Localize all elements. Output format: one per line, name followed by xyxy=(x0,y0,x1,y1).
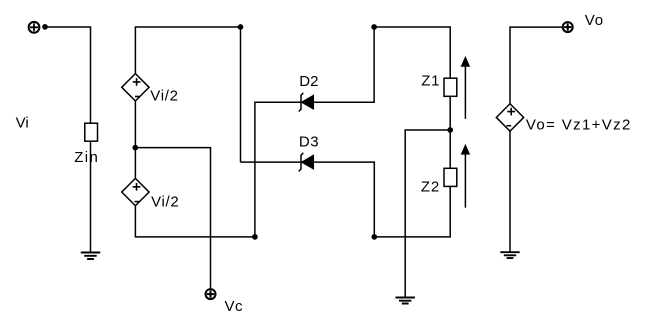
svg-text:Z2: Z2 xyxy=(421,178,440,195)
svg-text:Vi/2: Vi/2 xyxy=(151,194,179,211)
svg-text:Vi/2: Vi/2 xyxy=(150,88,178,105)
svg-text:Z1: Z1 xyxy=(421,73,440,90)
svg-text:Vo: Vo xyxy=(585,12,604,29)
svg-text:Zin: Zin xyxy=(74,149,99,166)
svg-text:Vc: Vc xyxy=(225,298,244,315)
svg-text:D3: D3 xyxy=(299,133,319,150)
svg-text:Vo= Vz1+Vz2: Vo= Vz1+Vz2 xyxy=(526,117,632,134)
svg-text:D2: D2 xyxy=(299,73,318,90)
svg-text:Vi: Vi xyxy=(16,115,29,132)
